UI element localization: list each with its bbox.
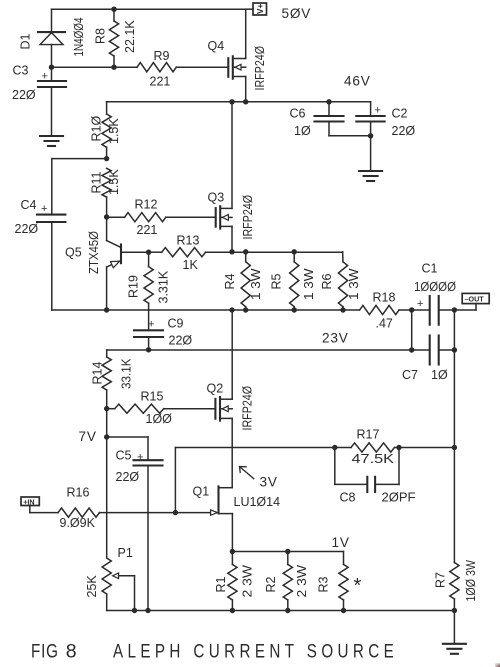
- svg-text:C9: C9: [168, 317, 184, 331]
- diode D1: [38, 32, 65, 67]
- node C2 bottom: [368, 133, 373, 138]
- label IRFP240 Q3: [241, 195, 255, 240]
- svg-text:D1: D1: [19, 33, 33, 49]
- capacitor C5: [134, 460, 163, 610]
- label R12: [135, 198, 158, 212]
- node C7 right: [452, 347, 457, 352]
- wire base line: [149, 251, 343, 253]
- svg-text:R6: R6: [320, 273, 334, 289]
- resistor R7: [450, 448, 459, 611]
- wire gate line: [100, 512, 211, 514]
- node R3 bottom: [341, 608, 346, 613]
- label star R3: [354, 575, 362, 597]
- label R7: [434, 572, 448, 588]
- terminal V+: [253, 3, 267, 15]
- wire bottom rail: [107, 610, 455, 612]
- svg-text:ZTX45Ø: ZTX45Ø: [87, 231, 101, 274]
- svg-text:33.1K: 33.1K: [120, 358, 134, 389]
- node Q2 drain rail: [229, 307, 234, 312]
- label 1V: [332, 535, 350, 550]
- node Q3 source line: [229, 249, 234, 254]
- wire D1 top: [51, 9, 53, 32]
- label 3V arrow: [240, 467, 254, 479]
- label Q1: [193, 485, 210, 499]
- node R2 top: [285, 549, 290, 554]
- svg-text:25K: 25K: [85, 575, 99, 598]
- wire Q5 collector: [106, 217, 108, 241]
- label R9: [154, 49, 170, 63]
- svg-text:R2: R2: [264, 576, 278, 592]
- node R10 bottom: [104, 156, 109, 161]
- svg-text:R4: R4: [223, 273, 237, 289]
- node 7V: [104, 434, 109, 439]
- wire out down: [453, 350, 455, 448]
- node fb right: [452, 445, 457, 450]
- label C2: [392, 107, 408, 121]
- label 100 R15: [146, 412, 173, 426]
- label 10 C6: [294, 124, 311, 138]
- svg-text:R3: R3: [317, 576, 331, 592]
- wire fb line: [175, 447, 454, 449]
- label 2 3W R2: [295, 565, 309, 598]
- resistor R11: [102, 168, 111, 217]
- label plus C3: [42, 71, 48, 83]
- svg-text:IRFP24Ø: IRFP24Ø: [253, 46, 267, 91]
- label Q5: [65, 246, 82, 260]
- wire C1-C7 left link: [411, 310, 413, 350]
- transistor Q2: [215, 397, 232, 421]
- label R5: [270, 273, 284, 289]
- svg-text:1.5K: 1.5K: [107, 118, 121, 144]
- svg-text:2 3W: 2 3W: [241, 565, 255, 598]
- label 9.09K: [60, 516, 96, 530]
- svg-text:Q1: Q1: [193, 485, 210, 499]
- svg-text:1 3W: 1 3W: [347, 268, 361, 300]
- label 220 C5: [116, 470, 140, 484]
- wire Q3 source: [231, 226, 233, 251]
- wire 23V line: [107, 349, 455, 351]
- svg-text:R18: R18: [373, 291, 396, 305]
- resistor R3: [339, 552, 348, 611]
- svg-text:23V: 23V: [322, 331, 349, 346]
- label 220 C4: [15, 222, 39, 236]
- capacitor C2: [356, 102, 384, 136]
- label R17: [357, 428, 380, 442]
- node R15 left: [104, 406, 109, 411]
- svg-text:47.5K: 47.5K: [352, 452, 395, 466]
- svg-text:1N4ØØ4: 1N4ØØ4: [72, 17, 86, 56]
- svg-text:P1: P1: [118, 546, 133, 560]
- svg-text:9.Ø9K: 9.Ø9K: [60, 516, 96, 530]
- transistor Q4: [228, 56, 245, 78]
- node fb gate: [173, 510, 178, 515]
- label C3: [13, 64, 29, 78]
- svg-text:22Ø: 22Ø: [169, 334, 193, 348]
- svg-text:LU1Ø14: LU1Ø14: [234, 495, 281, 509]
- label Q4: [208, 39, 225, 53]
- resistor R17: [351, 443, 394, 452]
- svg-text:+: +: [148, 319, 154, 331]
- node P1 wiper rail: [132, 608, 137, 613]
- label R3: [317, 576, 331, 592]
- wire Q2 source: [231, 418, 233, 487]
- svg-text:5ØV: 5ØV: [282, 6, 312, 21]
- label D1: [19, 33, 33, 49]
- label 1.5K R10: [107, 118, 121, 144]
- capacitor C7: [430, 336, 439, 365]
- svg-text:–OUT: –OUT: [465, 295, 485, 304]
- svg-text:1ØØ 3W: 1ØØ 3W: [464, 560, 478, 602]
- wire C2 to ground: [370, 136, 372, 171]
- label 3V: [260, 475, 278, 490]
- node C9 bottom: [146, 347, 151, 352]
- label 220 C9: [169, 334, 193, 348]
- svg-text:1 3W: 1 3W: [249, 268, 263, 300]
- ground under C3: [40, 136, 63, 146]
- node C5 rail: [145, 608, 150, 613]
- label 25K: [85, 575, 99, 598]
- resistor R12: [107, 213, 216, 222]
- node C8 right: [396, 445, 401, 450]
- resistor R5: [290, 252, 299, 310]
- node R4 bottom: [243, 307, 248, 312]
- svg-text:+: +: [417, 298, 423, 310]
- svg-text:221: 221: [137, 223, 158, 237]
- wire Q4 drain: [245, 9, 247, 58]
- capacitor C3: [38, 67, 66, 136]
- wire to C4: [52, 159, 107, 215]
- node OUT node: [452, 307, 457, 312]
- resistor R2: [283, 552, 292, 611]
- svg-text:C8: C8: [340, 491, 356, 505]
- resistor R19: [144, 252, 153, 330]
- label R2: [264, 576, 278, 592]
- svg-text:R1: R1: [214, 576, 228, 592]
- resistor R4: [241, 252, 250, 310]
- label R15: [141, 390, 164, 404]
- label plus C5: [137, 451, 143, 463]
- label IRFP240 Q2: [241, 386, 255, 431]
- svg-text:R7: R7: [434, 572, 448, 588]
- label C1: [422, 262, 438, 276]
- svg-text:7V: 7V: [79, 429, 97, 444]
- svg-text:C6: C6: [290, 107, 306, 121]
- label plus C9: [148, 319, 154, 331]
- svg-text:R19: R19: [127, 275, 141, 298]
- resistor R14: [102, 350, 111, 409]
- capacitor C9: [134, 330, 163, 350]
- terminal +IN: [21, 497, 39, 506]
- label R10: [90, 116, 104, 142]
- label .47: [376, 317, 393, 331]
- resistor R1: [228, 552, 237, 611]
- svg-text:22Ø: 22Ø: [15, 222, 39, 236]
- node R1 bottom: [230, 608, 235, 613]
- label 10000 C1: [414, 280, 456, 294]
- label Q3: [208, 191, 225, 205]
- label 221 R9: [150, 75, 171, 89]
- label 2 3W R1: [241, 565, 255, 598]
- label P1: [118, 546, 133, 560]
- capacitor C8: [335, 448, 399, 493]
- svg-text:.47: .47: [376, 317, 393, 331]
- node R11 bottom: [104, 214, 109, 219]
- svg-text:C3: C3: [13, 64, 29, 78]
- svg-text:Q3: Q3: [208, 191, 225, 205]
- wire gate rail Q4: [52, 66, 229, 68]
- title FIG 8 ALEPH CURRENT SOURCE: [31, 640, 394, 663]
- svg-text:+IN: +IN: [23, 497, 34, 506]
- node Q5 emitter rail: [104, 307, 109, 312]
- svg-text:1ØØ: 1ØØ: [146, 412, 173, 426]
- svg-text:V+: V+: [256, 4, 265, 14]
- node R7 rail: [452, 608, 457, 613]
- label 1N4004: [72, 17, 86, 56]
- svg-text:2ØPF: 2ØPF: [382, 491, 416, 505]
- label Q2: [207, 382, 224, 396]
- wire Q4 source: [245, 77, 247, 102]
- node R5 bottom: [292, 307, 297, 312]
- svg-text:1 3W: 1 3W: [302, 268, 316, 300]
- capacitor C6: [315, 102, 371, 136]
- label R19: [127, 275, 141, 298]
- svg-text:R16: R16: [67, 486, 90, 500]
- label 22.1K: [123, 20, 137, 53]
- label 220 C2: [392, 124, 416, 138]
- label 1K R13: [183, 258, 199, 272]
- svg-text:46V: 46V: [344, 74, 371, 89]
- svg-text:22Ø: 22Ø: [392, 124, 416, 138]
- resistor R9: [137, 63, 176, 72]
- svg-text:C2: C2: [392, 107, 408, 121]
- node C7 left: [409, 347, 414, 352]
- label C8: [340, 491, 356, 505]
- capacitor C4: [37, 215, 65, 310]
- ground under C2: [359, 171, 382, 181]
- svg-text:C1: C1: [422, 262, 438, 276]
- wire R7 ground: [453, 611, 455, 644]
- svg-text:221: 221: [150, 75, 171, 89]
- node Q3 drain top: [229, 99, 234, 104]
- svg-text:R12: R12: [135, 198, 158, 212]
- svg-text:1K: 1K: [183, 258, 199, 272]
- svg-text:*: *: [354, 575, 362, 597]
- svg-text:C5: C5: [116, 449, 132, 463]
- label C5: [116, 449, 132, 463]
- svg-text:R13: R13: [177, 234, 200, 248]
- label R16: [67, 486, 90, 500]
- wire V+ stub: [246, 8, 253, 10]
- node R4 top: [243, 249, 248, 254]
- svg-text:22Ø: 22Ø: [116, 470, 140, 484]
- label R11: [90, 171, 104, 193]
- resistor R13: [162, 248, 206, 257]
- svg-text:R9: R9: [154, 49, 170, 63]
- label 3.31K: [157, 270, 171, 303]
- node D1-C3-R8 junction: [49, 65, 54, 70]
- svg-text:1.5K: 1.5K: [107, 169, 121, 195]
- label 220 C3: [12, 88, 36, 102]
- label R13: [177, 234, 200, 248]
- svg-text:R8: R8: [94, 28, 108, 44]
- svg-text:R15: R15: [141, 390, 164, 404]
- svg-text:1Ø: 1Ø: [431, 368, 448, 382]
- label R4: [223, 273, 237, 289]
- wire +IN: [30, 506, 58, 513]
- label plus C4: [41, 203, 47, 215]
- svg-text:R1Ø: R1Ø: [90, 116, 104, 142]
- resistor R10: [102, 102, 111, 159]
- label 1.5K R11: [107, 169, 121, 195]
- label IRFP240 Q4: [253, 46, 267, 91]
- svg-text:2 3W: 2 3W: [295, 565, 309, 598]
- svg-text:3.31K: 3.31K: [157, 270, 171, 303]
- wire 7V down: [106, 437, 108, 558]
- svg-text:C4: C4: [21, 198, 37, 212]
- label ZTX450 Q5: [87, 231, 101, 274]
- label 221 R12: [137, 223, 158, 237]
- label 46V: [344, 74, 371, 89]
- node C8 left: [332, 445, 337, 450]
- label plus C2: [375, 105, 381, 117]
- label R18: [373, 291, 396, 305]
- wire source line: [232, 551, 343, 553]
- svg-text:C7: C7: [402, 368, 418, 382]
- wire fb corner: [174, 448, 176, 513]
- node C6 top: [326, 99, 331, 104]
- resistor R6: [338, 252, 347, 310]
- label R1: [214, 576, 228, 592]
- svg-text:R17: R17: [357, 428, 380, 442]
- resistor R15: [107, 404, 216, 413]
- wire output rail: [52, 309, 455, 311]
- svg-text:R5: R5: [270, 273, 284, 289]
- label 1 3W R6: [347, 268, 361, 300]
- label 1 3W R5: [302, 268, 316, 300]
- svg-text:+: +: [137, 451, 143, 463]
- node R19 top: [146, 250, 151, 255]
- label R6: [320, 273, 334, 289]
- resistor R18: [360, 305, 399, 314]
- label R8: [94, 28, 108, 44]
- node R8 bottom: [111, 65, 116, 70]
- svg-text:FIG: FIG: [31, 640, 58, 662]
- svg-text:IRFP24Ø: IRFP24Ø: [241, 386, 255, 431]
- svg-text:22.1K: 22.1K: [123, 20, 137, 53]
- svg-text:R11: R11: [90, 171, 104, 193]
- label 50V: [282, 6, 312, 21]
- wire OUT right link: [453, 310, 455, 350]
- label C9: [168, 317, 184, 331]
- wire 7V to C5: [107, 437, 148, 460]
- wire Q2 drain: [231, 310, 233, 399]
- svg-text:IRFP24Ø: IRFP24Ø: [241, 195, 255, 240]
- node Q1 source: [230, 549, 235, 554]
- svg-text:Q4: Q4: [208, 39, 225, 53]
- svg-text:R14: R14: [91, 362, 105, 385]
- label C6: [290, 107, 306, 121]
- transistor Q3: [216, 206, 232, 228]
- label LU1014: [234, 495, 281, 509]
- label C7: [402, 368, 418, 382]
- svg-text:22Ø: 22Ø: [12, 88, 36, 102]
- resistor R8: [109, 9, 118, 67]
- svg-text:1V: 1V: [332, 535, 350, 550]
- svg-text:Q5: Q5: [65, 246, 82, 260]
- svg-text:Q2: Q2: [207, 382, 224, 396]
- svg-text:8: 8: [66, 641, 77, 663]
- node Q4 source rail: [243, 99, 248, 104]
- label 1 3W R4: [249, 268, 263, 300]
- label 100 3W: [464, 560, 478, 602]
- wire 46V rail: [107, 101, 371, 103]
- wire Q1 source: [231, 514, 233, 552]
- node R8 top: [111, 7, 116, 12]
- svg-text:+: +: [41, 203, 47, 215]
- svg-text:+: +: [375, 105, 381, 117]
- ground under R7: [443, 644, 466, 654]
- label 33.1K: [120, 358, 134, 389]
- resistor R16: [58, 508, 100, 517]
- svg-text:3V: 3V: [260, 475, 278, 490]
- transistor Q1: [211, 486, 233, 515]
- label C4: [21, 198, 37, 212]
- wire Q3 drain: [231, 102, 233, 209]
- label R14: [91, 362, 105, 385]
- svg-text:+: +: [42, 71, 48, 83]
- svg-text:1Ø: 1Ø: [294, 124, 311, 138]
- label plus C1: [417, 298, 423, 310]
- label 10 C7: [431, 368, 448, 382]
- transistor Q5: [107, 241, 149, 311]
- wire R14-7V: [106, 409, 108, 437]
- wire top V+ rail: [52, 8, 246, 10]
- label 20PF: [382, 491, 416, 505]
- node R2 bottom: [285, 608, 290, 613]
- label 7V: [79, 429, 97, 444]
- label 23V: [322, 331, 349, 346]
- node C1 left: [409, 307, 414, 312]
- capacitor C1: [430, 296, 439, 325]
- svg-text:1ØØØØ: 1ØØØØ: [414, 280, 456, 294]
- node R5 top: [292, 249, 297, 254]
- potentiometer P1: [102, 558, 134, 611]
- terminal -OUT: [454, 293, 489, 310]
- label 47.5K: [352, 452, 395, 466]
- node R6 bottom: [340, 307, 345, 312]
